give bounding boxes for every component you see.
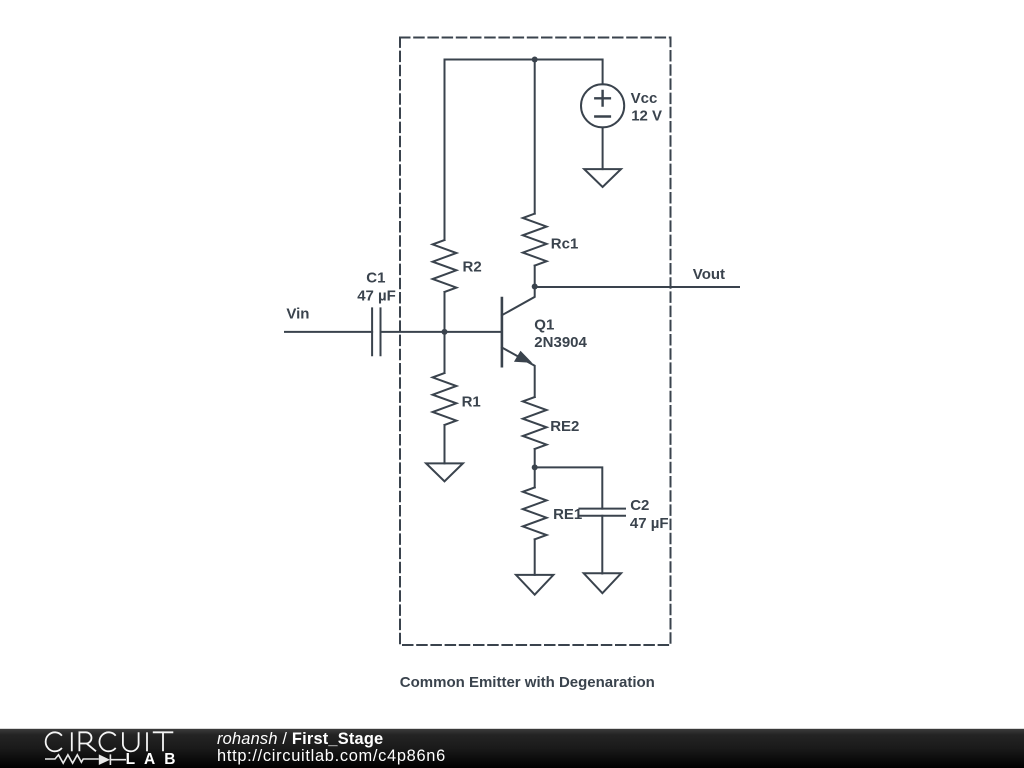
wire RE1 to ground <box>534 539 536 575</box>
svg-text:C1: C1 <box>366 270 385 287</box>
wire base node to R1 <box>444 332 446 373</box>
svg-text:12 V: 12 V <box>631 108 662 125</box>
svg-text:rohansh / First_Stage: rohansh / First_Stage <box>217 730 383 748</box>
wire node to RE1 <box>534 467 536 487</box>
svg-text:Vout: Vout <box>693 266 725 283</box>
node emitter divider junction <box>532 464 538 470</box>
resistor RE1 <box>523 487 547 539</box>
wire Rc1 to Vout node <box>534 266 536 287</box>
svg-text:RE2: RE2 <box>550 418 579 435</box>
logo CIRCUIT lettering <box>46 732 174 751</box>
svg-text:Q1: Q1 <box>534 316 554 333</box>
wire C2 to ground <box>601 516 603 574</box>
transistor Q1 <box>502 287 535 398</box>
wire Rc1 top <box>534 60 536 214</box>
ground (RE1) <box>516 575 553 595</box>
svg-text:47 µF: 47 µF <box>630 515 669 532</box>
svg-text:Vin: Vin <box>286 305 309 322</box>
dashed enclosure box <box>400 38 671 646</box>
svg-text:C2: C2 <box>630 497 649 514</box>
svg-text:http://circuitlab.com/c4p86n6: http://circuitlab.com/c4p86n6 <box>217 747 446 765</box>
ground (Vcc) <box>584 169 621 187</box>
wire Vout <box>535 286 739 288</box>
wire Vcc to ground <box>602 127 604 169</box>
resistor R2 <box>433 240 457 292</box>
capacitor C2 <box>579 509 625 516</box>
wire R1 to ground <box>444 425 446 463</box>
svg-text:Vcc: Vcc <box>631 90 658 107</box>
svg-text:Rc1: Rc1 <box>551 235 579 252</box>
svg-text:47 µF: 47 µF <box>357 288 396 305</box>
wire node to C2 branch <box>535 467 603 508</box>
resistor RE2 <box>523 397 547 449</box>
logo resistor-diode strip <box>45 754 126 765</box>
svg-text:2N3904: 2N3904 <box>534 334 587 351</box>
node Vout junction <box>532 284 538 290</box>
ground (C2) <box>584 573 621 593</box>
wire C1 to base <box>381 331 502 333</box>
voltage source Vcc <box>581 84 624 127</box>
svg-text:LAB: LAB <box>126 751 185 768</box>
wire RE2 to node <box>534 449 536 467</box>
ground (R1) <box>426 463 463 481</box>
resistor R1 <box>433 373 457 425</box>
capacitor C1 <box>372 308 380 355</box>
svg-text:R1: R1 <box>462 393 481 410</box>
resistor Rc1 <box>523 214 547 266</box>
svg-text:Common Emitter with Degenarati: Common Emitter with Degenaration <box>400 674 655 691</box>
node top rail junction <box>532 57 538 63</box>
svg-text:R2: R2 <box>463 259 482 276</box>
wire top rail <box>445 60 603 241</box>
wire R2 to base node <box>444 292 446 332</box>
wire Vin <box>285 331 372 333</box>
svg-text:RE1: RE1 <box>553 506 582 523</box>
node base junction <box>442 329 448 335</box>
